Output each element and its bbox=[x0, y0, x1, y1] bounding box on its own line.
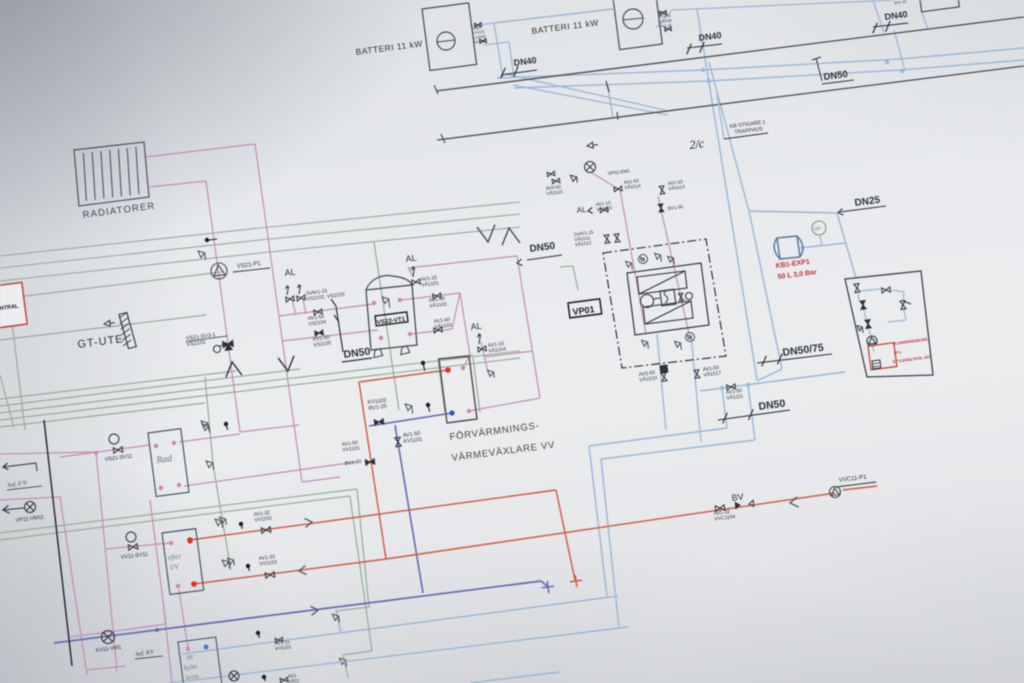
svg-text:VS2104: VS2104 bbox=[308, 319, 327, 327]
svg-text:VV: VV bbox=[169, 562, 181, 572]
svg-text:BATTERI 11 kW: BATTERI 11 kW bbox=[531, 17, 599, 36]
svg-text:50 L: 50 L bbox=[894, 350, 903, 355]
svg-text:DN50/75: DN50/75 bbox=[782, 342, 825, 359]
svg-text:krets: krets bbox=[185, 672, 200, 682]
svg-text:VV1102: VV1102 bbox=[254, 515, 272, 523]
svg-text:bef. KV: bef. KV bbox=[135, 649, 155, 658]
svg-text:BLANDNINGSKÄRL: BLANDNINGSKÄRL bbox=[893, 337, 930, 346]
svg-text:VV1101: VV1101 bbox=[342, 445, 360, 453]
svg-text:50 L 3,0 Bar: 50 L 3,0 Bar bbox=[777, 269, 817, 281]
svg-text:RV1-25: RV1-25 bbox=[473, 39, 486, 45]
svg-text:DN50: DN50 bbox=[529, 241, 556, 255]
svg-text:DN40: DN40 bbox=[698, 30, 722, 43]
svg-text:ETYLENGLYKOL 35%: ETYLENGLYKOL 35% bbox=[893, 355, 933, 364]
svg-text:AL: AL bbox=[576, 205, 587, 215]
svg-text:BV1-25: BV1-25 bbox=[894, 0, 906, 5]
svg-text:VV1103: VV1103 bbox=[259, 559, 277, 567]
svg-text:GT-UTE: GT-UTE bbox=[77, 333, 125, 351]
svg-text:VÄRMEVÄXLARE VV: VÄRMEVÄXLARE VV bbox=[451, 440, 556, 464]
svg-text:AV: AV bbox=[184, 653, 195, 662]
svg-text:2/c: 2/c bbox=[689, 136, 706, 152]
svg-text:KB1-EXP1: KB1-EXP1 bbox=[775, 259, 810, 270]
svg-text:RV1-25: RV1-25 bbox=[368, 404, 387, 412]
svg-text:kylm: kylm bbox=[183, 662, 197, 672]
svg-text:BATTERI 11 kW: BATTERI 11 kW bbox=[355, 38, 423, 57]
svg-text:VV11-SV11: VV11-SV11 bbox=[120, 552, 148, 561]
svg-text:BV1-50: BV1-50 bbox=[667, 204, 683, 211]
svg-text:AL: AL bbox=[470, 321, 482, 332]
svg-text:VS21-P1: VS21-P1 bbox=[236, 261, 261, 270]
svg-text:DN40: DN40 bbox=[884, 9, 908, 22]
svg-text:efter: efter bbox=[167, 551, 182, 562]
svg-text:VP01-EM1: VP01-EM1 bbox=[607, 168, 630, 176]
svg-text:VVC11-P1: VVC11-P1 bbox=[838, 474, 867, 484]
svg-text:VS21-SV11: VS21-SV11 bbox=[104, 453, 132, 463]
svg-text:VP11-VM11: VP11-VM11 bbox=[15, 514, 44, 524]
svg-text:BV: BV bbox=[731, 492, 744, 503]
svg-text:Rad: Rad bbox=[155, 454, 173, 466]
svg-text:AL: AL bbox=[405, 253, 417, 264]
svg-text:KV1101: KV1101 bbox=[275, 644, 292, 651]
svg-text:BV1-50: BV1-50 bbox=[344, 459, 362, 467]
svg-text:AL: AL bbox=[284, 267, 296, 278]
svg-text:FÖRVÄRMNINGS-: FÖRVÄRMNINGS- bbox=[449, 420, 540, 443]
svg-text:MP: MP bbox=[813, 226, 822, 233]
svg-text:KV11-VM1: KV11-VM1 bbox=[95, 645, 121, 654]
svg-text:VS22-VT1: VS22-VT1 bbox=[376, 316, 406, 327]
svg-text:VS2105: VS2105 bbox=[313, 340, 332, 348]
svg-text:DN40: DN40 bbox=[513, 55, 537, 68]
svg-text:KV1101: KV1101 bbox=[403, 437, 422, 445]
